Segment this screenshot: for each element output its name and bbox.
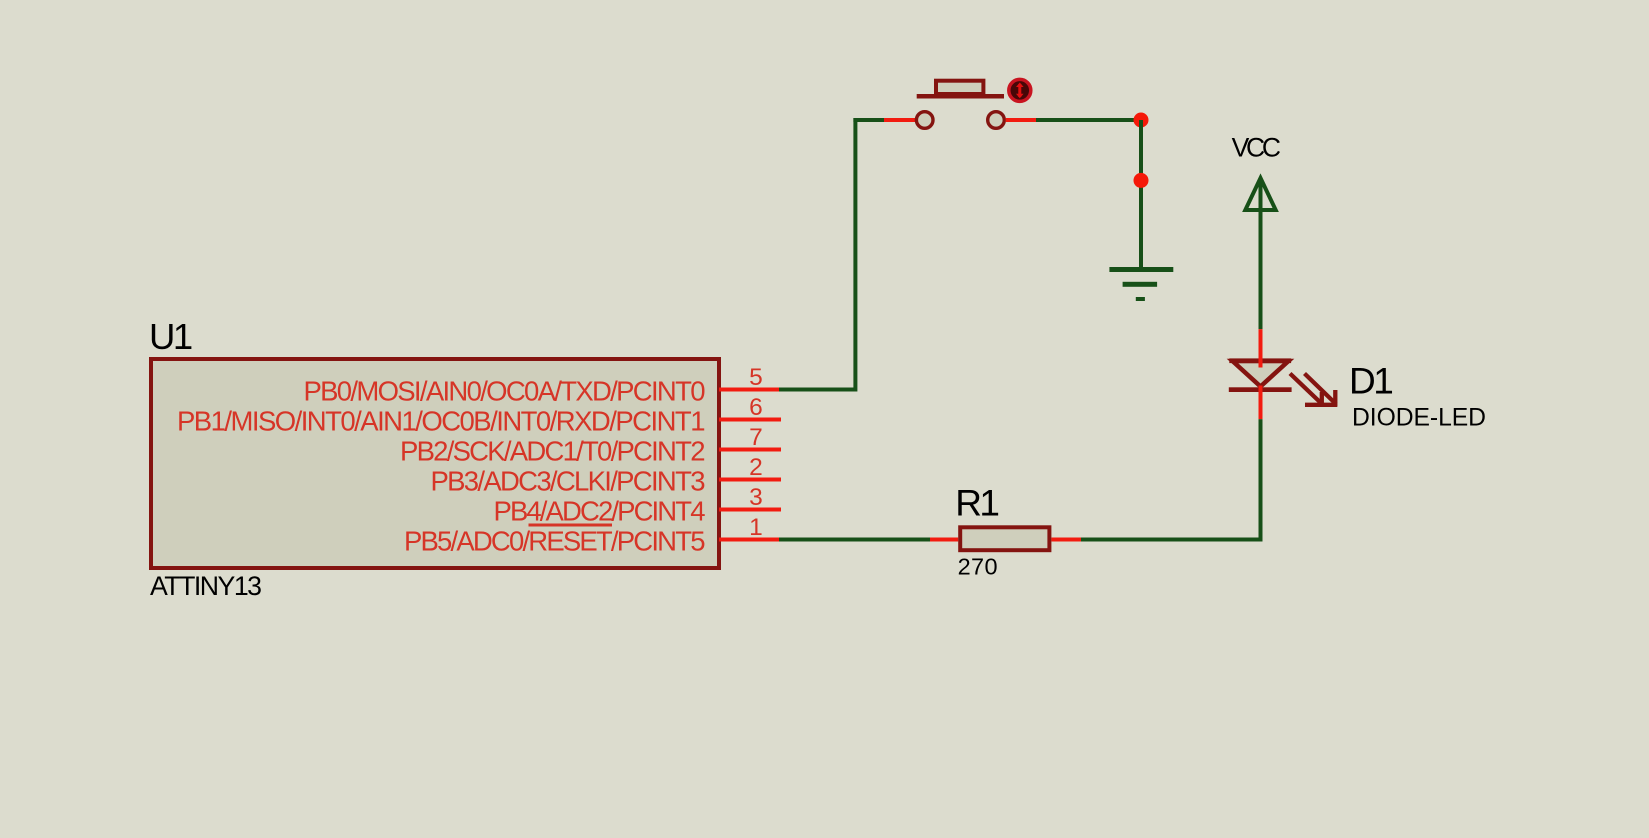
RESET overline bbox=[529, 524, 613, 527]
LED cathode pin red bbox=[1259, 386, 1263, 420]
svg-text:U1: U1 bbox=[149, 316, 192, 357]
wire vertical left riser bbox=[853, 118, 857, 392]
R1 right red stub bbox=[1051, 538, 1081, 542]
button toggle actuator icon bbox=[1009, 79, 1031, 101]
wire top horizontal to button bbox=[853, 118, 885, 122]
resistor R1 body bbox=[960, 527, 1049, 550]
pin 3 stub bbox=[719, 508, 781, 512]
wire resistor to LED corner bbox=[1081, 538, 1263, 542]
wire pin1 to resistor bbox=[779, 538, 930, 542]
red stub into button left bbox=[884, 118, 915, 122]
push button terminal right bbox=[988, 112, 1005, 129]
svg-text:1: 1 bbox=[749, 514, 763, 541]
LED arrow 1 bbox=[1290, 374, 1322, 405]
red stub out of button right bbox=[1006, 118, 1036, 122]
wire VCC down to LED bbox=[1259, 178, 1263, 329]
LED D1 triangle bbox=[1233, 361, 1289, 387]
IC U1 ATTINY13 body bbox=[151, 359, 719, 568]
svg-text:PB4/ADC2/PCINT4: PB4/ADC2/PCINT4 bbox=[494, 496, 706, 527]
svg-text:5: 5 bbox=[749, 364, 763, 391]
wire pin5 to corner bbox=[779, 388, 857, 392]
svg-text:PB0/MOSI/AIN0/OC0A/TXD/PCINT0: PB0/MOSI/AIN0/OC0A/TXD/PCINT0 bbox=[304, 376, 706, 407]
svg-text:ATTINY13: ATTINY13 bbox=[150, 571, 262, 601]
pin 7 stub bbox=[719, 448, 781, 452]
junction dot top bbox=[1134, 113, 1149, 128]
pin 1 stub bbox=[719, 538, 781, 542]
svg-text:7: 7 bbox=[749, 424, 763, 451]
svg-text:PB5/ADC0/RESET/PCINT5: PB5/ADC0/RESET/PCINT5 bbox=[404, 526, 706, 557]
wire LED down to corner bbox=[1259, 419, 1263, 541]
junction dot ground terminal bbox=[1134, 173, 1149, 188]
svg-text:3: 3 bbox=[749, 484, 763, 511]
ground bar 3 bbox=[1136, 297, 1145, 301]
svg-text:VCC: VCC bbox=[1232, 133, 1281, 163]
ground bar 1 bbox=[1109, 267, 1173, 272]
svg-text:DIODE-LED: DIODE-LED bbox=[1352, 405, 1486, 432]
pin 6 stub bbox=[719, 418, 781, 422]
LED cathode bar bbox=[1229, 387, 1292, 392]
push button plate bbox=[917, 94, 1004, 99]
svg-text:PB3/ADC3/CLKI/PCINT3: PB3/ADC3/CLKI/PCINT3 bbox=[431, 466, 706, 497]
LED arrow 2 bbox=[1305, 374, 1337, 405]
svg-text:2: 2 bbox=[749, 454, 763, 481]
svg-text:D1: D1 bbox=[1349, 361, 1392, 402]
LED anode pin red bbox=[1259, 329, 1263, 367]
wire button to junction bbox=[1036, 118, 1143, 122]
svg-text:R1: R1 bbox=[955, 482, 998, 523]
svg-text:270: 270 bbox=[958, 554, 998, 580]
svg-text:6: 6 bbox=[749, 394, 763, 421]
push button terminal left bbox=[916, 112, 933, 129]
R1 left red stub bbox=[930, 538, 958, 542]
push button actuator bbox=[936, 81, 983, 94]
LED anode top bar bbox=[1229, 358, 1291, 363]
pin 5 stub bbox=[719, 388, 781, 392]
VCC arrow symbol bbox=[1245, 178, 1275, 210]
svg-text:PB2/SCK/ADC1/T0/PCINT2: PB2/SCK/ADC1/T0/PCINT2 bbox=[400, 436, 706, 467]
ground bar 2 bbox=[1123, 282, 1158, 287]
pin 2 stub bbox=[719, 478, 781, 482]
wire junction down to ground bbox=[1139, 120, 1143, 269]
svg-text:PB1/MISO/INT0/AIN1/OC0B/INT0/R: PB1/MISO/INT0/AIN1/OC0B/INT0/RXD/PCINT1 bbox=[177, 406, 706, 437]
